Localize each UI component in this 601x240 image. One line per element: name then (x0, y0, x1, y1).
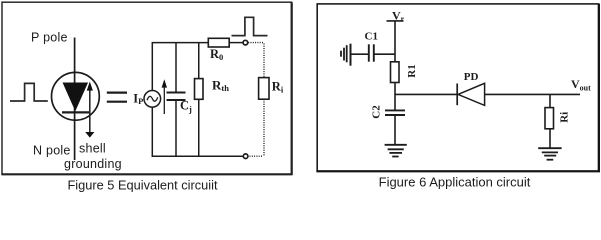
photodiode PD cathode bar (456, 84, 458, 106)
dashed wire node top to Ri (248, 42, 264, 44)
figure 5 frame (2, 2, 292, 174)
wire Cj branch bottom (175, 100, 177, 156)
wire left branch bottom (151, 107, 153, 156)
output pulse waveform (232, 17, 268, 35)
svg-text:R1: R1 (406, 64, 418, 77)
wire top rail (152, 42, 209, 44)
ground G3 (below Ri) (538, 147, 561, 149)
wire ground to C1 (351, 53, 369, 55)
wire Vout branch to Ri (549, 94, 551, 107)
wire C1 to R1 branch (374, 53, 395, 55)
load resistor Ri (259, 78, 269, 100)
capacitor Cj (167, 92, 186, 94)
wire PD to Vout (485, 93, 580, 95)
current arrow inside network (163, 86, 165, 115)
resistor Ri (545, 108, 554, 129)
wire bottom rail (152, 155, 244, 157)
node bottom terminal (243, 154, 248, 159)
wire Rth branch top (198, 43, 200, 79)
figure 6 frame (317, 4, 598, 171)
svg-text:C1: C1 (365, 31, 378, 43)
wire left branch top (151, 43, 153, 91)
svg-text:PD: PD (464, 71, 479, 83)
wire Ri to ground (549, 129, 551, 148)
svg-text:P pole: P pole (31, 31, 68, 45)
svg-text:N pole: N pole (33, 144, 71, 158)
wire C2 to ground (394, 115, 396, 144)
wire P pole anode lead (74, 38, 76, 161)
svg-text:C2: C2 (371, 105, 383, 119)
capacitor C1 (368, 44, 370, 61)
wire Rth branch bottom (198, 99, 200, 156)
svg-text:Figure 5 Equivalent circuiit: Figure 5 Equivalent circuiit (67, 177, 218, 192)
svg-text:Ri: Ri (558, 112, 570, 123)
node top terminal (243, 40, 248, 45)
equivalence sign (107, 91, 127, 93)
svg-text:Figure 6 Application circuit: Figure 6 Application circuit (379, 175, 531, 190)
resistor R0 (208, 38, 229, 47)
photodiode PD triangle (458, 83, 485, 105)
photodiode D1 circle (52, 72, 100, 120)
svg-text:shell: shell (79, 142, 106, 156)
ground G1 (left of C1) (350, 44, 352, 66)
dashed wire Ri to node bottom (263, 99, 265, 156)
wire R0 to node (229, 42, 243, 44)
Vr terminal tick (387, 20, 404, 22)
capacitor C2 (385, 109, 405, 111)
wire node to PD (395, 93, 457, 95)
wire Cj branch top (175, 43, 177, 93)
input pulse waveform (10, 83, 48, 101)
photodiode triangle (63, 83, 87, 110)
current source circle (144, 91, 161, 108)
resistor R1 (391, 62, 400, 83)
resistor Rth (195, 79, 204, 100)
ground G2 (below C2) (385, 144, 407, 146)
photodiode cathode bar (62, 111, 89, 113)
wire Vr to R1 (394, 21, 396, 62)
svg-text:grounding: grounding (64, 157, 122, 171)
wire R1 to C2 (394, 83, 396, 111)
current direction arrow (up) with shell lead (down) (89, 88, 91, 132)
